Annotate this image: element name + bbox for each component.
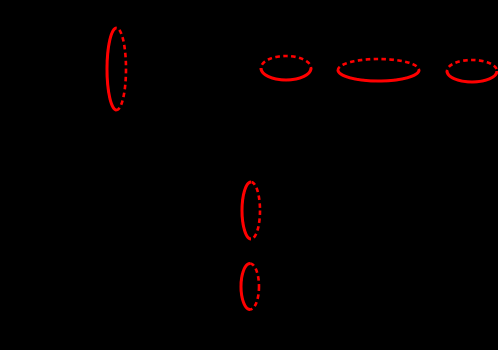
highlight ellipse E6 (tall oval, bottom node) <box>241 264 259 310</box>
highlight ellipse E5 (tall oval, middle node) <box>242 182 260 239</box>
highlight ellipse E2 (wide oval, top row first) <box>261 56 311 80</box>
highlight ellipse E1 (tall oval, top-left node) <box>107 28 126 110</box>
highlight ellipse E4 (wide oval, top row third) <box>447 60 497 82</box>
highlight ellipse E3 (wide oval, top row second) <box>338 59 419 81</box>
